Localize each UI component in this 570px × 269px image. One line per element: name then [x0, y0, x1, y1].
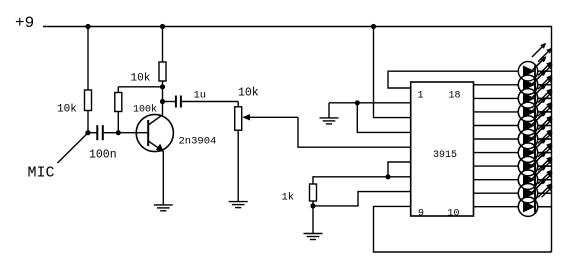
LED D1	[518, 43, 552, 81]
LED D6	[518, 111, 552, 149]
LED D8	[518, 138, 552, 176]
node G junction pin2/pin4	[355, 100, 360, 105]
wire R1 to mic node	[87, 111, 89, 133]
LED D4	[518, 84, 552, 122]
wire V+ to pin3	[374, 27, 411, 118]
LED D3	[518, 70, 552, 108]
LED D9	[518, 151, 552, 189]
svg-text:100n: 100n	[89, 149, 117, 162]
ground G4 R5	[304, 233, 323, 235]
node H junction rail/pin3	[371, 24, 376, 29]
wire pin 10 to LED D10	[474, 192, 519, 194]
node E collector junction 1	[160, 84, 165, 89]
wire rail to R1	[87, 27, 89, 91]
wire R5 bottom	[312, 201, 314, 206]
capacitor C2 1u	[163, 101, 176, 103]
node +9 power rail	[43, 27, 552, 253]
LED D11	[518, 178, 552, 216]
svg-text:2n3904: 2n3904	[179, 136, 217, 148]
wire pin 11 to LED D9	[474, 179, 519, 181]
svg-text:1u: 1u	[194, 90, 207, 102]
LED column	[518, 43, 552, 217]
LED D7	[518, 124, 552, 162]
wire emitter down	[162, 151, 164, 205]
LED D3	[518, 70, 552, 108]
wire R5 node to pin8	[313, 192, 411, 206]
resistor R1 10k	[85, 90, 92, 111]
resistor R3 10k	[159, 62, 166, 81]
wire pin 16 to LED D4	[474, 111, 519, 113]
svg-text:+9: +9	[15, 14, 34, 32]
wire pin1 to LED1	[388, 71, 518, 88]
svg-text:10k: 10k	[131, 73, 151, 85]
svg-text:10k: 10k	[238, 87, 259, 100]
wire pot bottom to ground	[237, 130, 239, 201]
wire pin 15 to LED D5	[474, 125, 519, 127]
wire pin 9 to LED D11	[474, 206, 519, 208]
svg-text:MIC: MIC	[28, 165, 55, 182]
wire R3 to collector	[162, 81, 164, 115]
LED D10	[518, 165, 552, 203]
svg-text:10k: 10k	[57, 104, 77, 116]
wire pin 13 to LED D7	[474, 152, 519, 154]
LED D4	[518, 83, 552, 121]
LED D6	[518, 110, 552, 148]
LED D5	[518, 97, 552, 135]
resistor R2 100k	[115, 93, 122, 112]
op-amp U1 LM3915 body	[411, 82, 474, 216]
svg-text:18: 18	[449, 91, 461, 102]
svg-text:10: 10	[448, 209, 460, 220]
LED D5	[518, 97, 552, 135]
ground G2 pot	[229, 201, 248, 203]
node A junction rail/R1	[85, 24, 90, 29]
wire rail to R3	[162, 27, 164, 63]
svg-text:1: 1	[418, 91, 424, 102]
svg-text:9: 9	[418, 209, 424, 220]
LED D2	[518, 56, 552, 94]
wire pin 18 to LED D2	[474, 84, 519, 86]
node I junction pin6/pin7	[385, 174, 390, 179]
wire pin6 to pin7	[388, 162, 411, 177]
wire pin9 mode loop	[374, 206, 552, 252]
LED D8	[518, 138, 552, 176]
node F collector junction 2	[160, 99, 165, 104]
wire R5 to ground	[312, 206, 314, 234]
wire pin 17 to LED D3	[474, 97, 519, 99]
node C base junction	[116, 130, 121, 135]
wire pin4 to ground net	[357, 103, 410, 133]
LED D10	[518, 165, 552, 203]
wiper arrow R4	[242, 114, 250, 120]
wire pin2 to ground	[329, 102, 411, 104]
LED D11	[518, 178, 552, 216]
wire pin 12 to LED D8	[474, 165, 519, 167]
capacitor C1 100n	[88, 132, 97, 134]
wire pin7 to R5	[313, 177, 411, 184]
resistor R5 1k	[310, 184, 317, 201]
node D junction rail/R3	[160, 24, 165, 29]
node B mic junction	[85, 130, 90, 135]
node J junction R5/pin8	[310, 203, 315, 208]
transistor Q1 2n3904	[136, 114, 173, 151]
ground G3 pin2	[328, 103, 330, 118]
potentiometer R4 10k	[237, 102, 239, 107]
wire pin 14 to LED D6	[474, 138, 519, 140]
wire base	[118, 132, 148, 134]
ground G1 emitter	[154, 204, 173, 206]
wire MIC lead	[58, 133, 89, 163]
svg-text:3915: 3915	[433, 150, 457, 161]
LED D7	[518, 124, 552, 162]
wire wiper to pin5	[298, 117, 411, 147]
LED D9	[518, 151, 552, 189]
svg-text:1k: 1k	[282, 192, 295, 204]
wire feedback 100k to collector node	[118, 86, 162, 88]
LED D2	[518, 56, 552, 94]
